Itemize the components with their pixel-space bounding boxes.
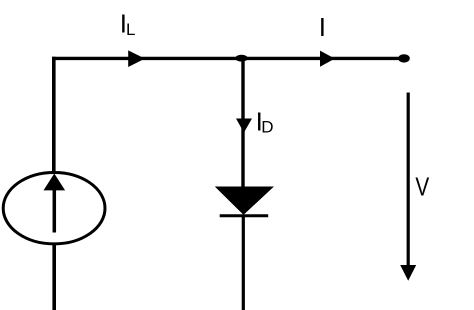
svg-text:D: D bbox=[261, 118, 273, 137]
svg-text:L: L bbox=[126, 20, 135, 39]
arrowhead I current direction bbox=[320, 51, 335, 67]
wire left bottom bbox=[52, 243, 56, 310]
diode D1 bbox=[216, 187, 273, 216]
arrow V voltage reference bbox=[400, 93, 416, 281]
terminal dot output node bbox=[398, 54, 410, 62]
label IL bbox=[120, 9, 136, 39]
wire diode bottom bbox=[242, 215, 245, 310]
wire middle vertical bbox=[241, 59, 244, 188]
svg-text:I: I bbox=[319, 12, 326, 42]
wire left vertical bbox=[52, 57, 56, 172]
wire top horizontal bbox=[52, 57, 401, 60]
label ID bbox=[256, 107, 274, 137]
arrowhead IL current direction bbox=[128, 50, 145, 67]
svg-text:V: V bbox=[415, 172, 429, 201]
arrowhead ID current direction bbox=[236, 119, 252, 133]
current source bbox=[3, 173, 105, 244]
node junction bbox=[235, 55, 247, 62]
